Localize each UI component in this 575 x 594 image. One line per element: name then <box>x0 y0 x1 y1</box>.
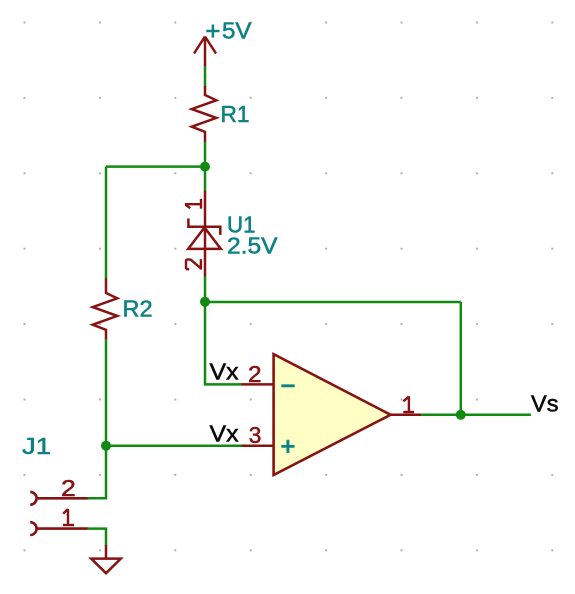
label +5V <box>206 25 219 38</box>
wire J1 pin 1 to ground <box>88 529 107 546</box>
voltage reference U1 zener diode <box>188 191 221 277</box>
svg-text:Vx: Vx <box>210 359 240 385</box>
op-amp pin 3 stub <box>242 445 275 448</box>
pin name plus <box>281 440 294 453</box>
wire left rail down to R2 <box>105 167 108 279</box>
wire R2 to junction D <box>105 339 108 446</box>
svg-text:Vx: Vx <box>210 421 240 447</box>
wire R1 to junction A <box>204 142 207 192</box>
wire junction B to op-amp pin 2 <box>205 302 243 385</box>
J1 pin 1 number <box>63 509 74 525</box>
wire feedback vertical <box>460 302 463 415</box>
svg-text:2: 2 <box>248 361 262 387</box>
pin name minus <box>281 384 294 387</box>
wire junction D to op-amp pin 3 <box>106 445 243 448</box>
svg-text:3: 3 <box>249 422 262 448</box>
svg-text:R1: R1 <box>221 101 250 127</box>
connector J1 <box>30 492 88 535</box>
op-amp pin 2 stub <box>242 383 275 386</box>
power symbol +5V <box>194 37 216 67</box>
ground <box>91 545 121 573</box>
svg-text:Vs: Vs <box>531 391 559 417</box>
svg-text:5V: 5V <box>222 17 252 43</box>
wire J1 pin 2 to junction D <box>88 446 107 499</box>
pin number 1 <box>403 396 414 412</box>
svg-text:J1: J1 <box>22 433 51 459</box>
wire junction C to Vs <box>461 414 531 417</box>
wire output to junction C <box>421 414 461 417</box>
wire junction A to left rail <box>106 165 205 168</box>
resistor R1 <box>192 86 217 142</box>
junction A <box>200 162 210 172</box>
svg-text:R2: R2 <box>123 296 153 322</box>
svg-text:2: 2 <box>61 475 76 501</box>
resistor R2 <box>93 278 118 339</box>
op-amp body <box>274 354 391 475</box>
U1 pin 2 number <box>186 259 201 269</box>
junction B <box>200 297 210 307</box>
U1 pin 1 number <box>185 199 201 209</box>
junction C <box>456 410 466 420</box>
junction D node Vx <box>101 441 111 451</box>
wire +5V to R1 <box>204 66 207 87</box>
wire U1 to junction B <box>204 277 207 304</box>
op-amp output pin 1 stub <box>390 414 422 417</box>
wire feedback horizontal <box>205 301 461 304</box>
svg-text:2.5V: 2.5V <box>227 232 278 258</box>
